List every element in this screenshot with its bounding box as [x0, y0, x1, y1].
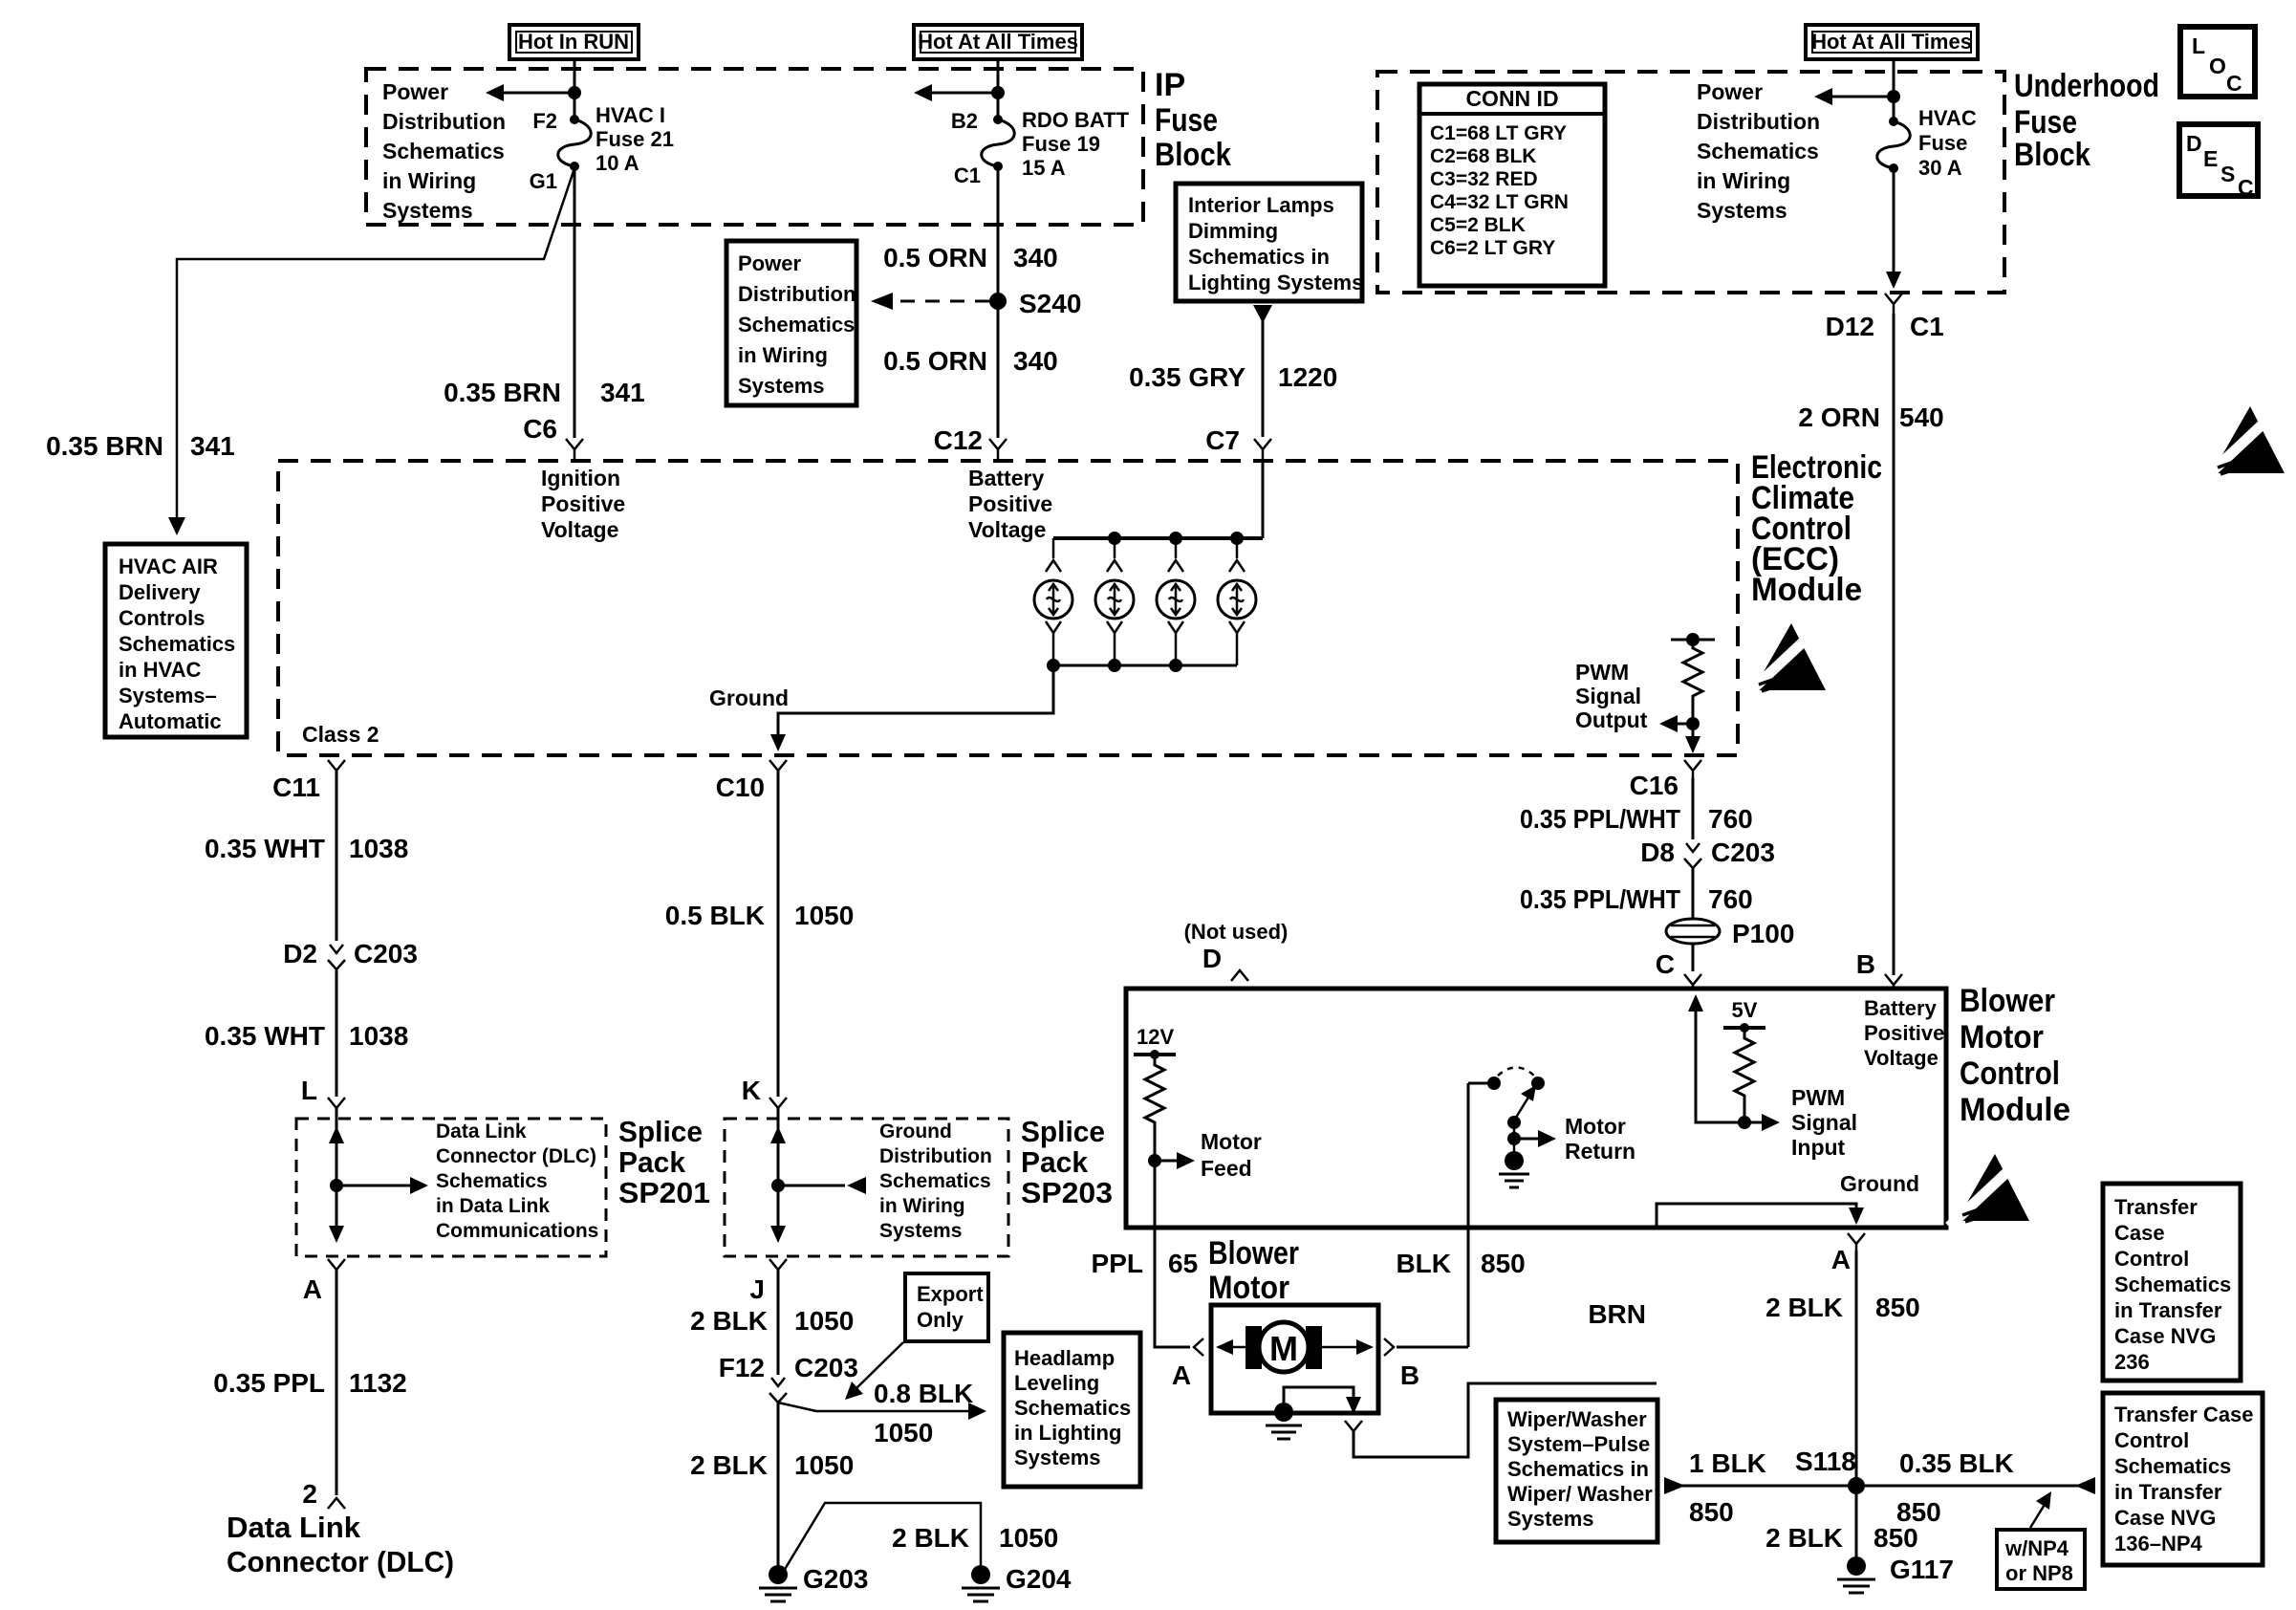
svg-text:Motor: Motor: [1565, 1114, 1626, 1139]
svg-text:Case NVG: Case NVG: [2114, 1506, 2216, 1530]
svg-text:Hot In RUN: Hot In RUN: [518, 30, 629, 54]
note: Data Link Connector schematics: [436, 1120, 598, 1242]
arrow down SP203: [770, 1226, 786, 1243]
wire through SP201: [336, 1108, 338, 1239]
in-line connector F12 C203: [719, 1353, 858, 1403]
svg-text:Power: Power: [1697, 79, 1763, 104]
node dots on bottom bus: [1047, 659, 1060, 672]
svg-text:2 BLK: 2 BLK: [1765, 1293, 1843, 1322]
wire labels 1 BLK / S118 / 0.35 BLK: [1689, 1447, 2014, 1478]
driver lamp symbol 2: [1095, 538, 1134, 665]
svg-text:Systems: Systems: [738, 374, 825, 398]
wire label 2 ORN 540: [1798, 402, 1943, 432]
svg-text:C: C: [2238, 175, 2254, 200]
svg-text:F2: F2: [532, 109, 557, 133]
svg-text:Voltage: Voltage: [968, 517, 1046, 542]
motor return loop inside case: [1284, 1387, 1354, 1403]
wire label BLK 850: [1396, 1249, 1525, 1278]
label box Hot At All Times (underhood): [1806, 25, 1978, 59]
splice pack SP201 dashed box: [296, 1119, 606, 1256]
arrow at C16 exit: [1685, 724, 1700, 753]
wire A to DLC: [336, 1270, 338, 1495]
svg-text:0.35 GRY: 0.35 GRY: [1129, 362, 1245, 392]
svg-text:in Transfer: in Transfer: [2114, 1480, 2222, 1504]
splice node SP203: [771, 1179, 785, 1192]
svg-text:D: D: [1202, 944, 1222, 973]
svg-text:Positive: Positive: [968, 491, 1052, 516]
value label HVAC Fuse 30 A: [1918, 106, 1977, 180]
IP fuse block dashed box: [366, 69, 1143, 225]
svg-text:C2=68 BLK: C2=68 BLK: [1430, 145, 1536, 167]
svg-text:Voltage: Voltage: [541, 517, 618, 542]
svg-text:Ground: Ground: [1840, 1171, 1919, 1196]
svg-text:in Lighting: in Lighting: [1014, 1421, 1121, 1445]
motor case box: [1211, 1305, 1378, 1413]
arrow from Interior Lamps box: [1253, 305, 1272, 323]
svg-text:Schematics: Schematics: [436, 1170, 548, 1192]
wire module A to S118: [1855, 1251, 1858, 1478]
svg-text:G117: G117: [1890, 1555, 1954, 1584]
svg-text:Signal: Signal: [1791, 1110, 1857, 1135]
svg-text:5V: 5V: [1732, 998, 1758, 1022]
svg-text:J: J: [749, 1274, 765, 1304]
note: Power Distribution Schematics (underhood): [1697, 79, 1820, 223]
svg-text:Control: Control: [1960, 1055, 2060, 1092]
svg-text:BLK: BLK: [1396, 1249, 1451, 1278]
ground G203: [759, 1564, 869, 1601]
wire P100 to module pin C: [1692, 944, 1695, 971]
svg-text:Input: Input: [1791, 1135, 1846, 1160]
svg-text:Feed: Feed: [1201, 1156, 1252, 1181]
connector C11: [328, 760, 345, 771]
label IP Fuse Block: [1155, 67, 1231, 173]
svg-text:Transfer: Transfer: [2114, 1195, 2198, 1219]
svg-text:in Wiring: in Wiring: [1697, 168, 1790, 193]
node dots on top bus: [1108, 532, 1121, 545]
svg-text:Schematics: Schematics: [1014, 1396, 1131, 1420]
wire motor B to switch: [1397, 1346, 1468, 1349]
svg-text:System–Pulse: System–Pulse: [1507, 1432, 1650, 1456]
svg-text:2 ORN: 2 ORN: [1798, 402, 1880, 432]
svg-text:2 BLK: 2 BLK: [690, 1450, 768, 1480]
wire arrow to power distribution (underhood): [1814, 88, 1894, 105]
splice S118 node: [1848, 1477, 1865, 1494]
pin label Motor Return: [1565, 1114, 1635, 1164]
svg-text:Battery: Battery: [968, 466, 1044, 490]
svg-text:A: A: [1172, 1360, 1191, 1390]
svg-text:Schematics in: Schematics in: [1507, 1457, 1649, 1481]
svg-text:C12: C12: [934, 425, 983, 455]
ground G204: [962, 1564, 1072, 1601]
svg-text:0.35 WHT: 0.35 WHT: [205, 1021, 325, 1051]
svg-text:1038: 1038: [349, 834, 408, 863]
svg-text:850: 850: [1875, 1293, 1920, 1322]
svg-text:Ground: Ground: [879, 1120, 952, 1142]
svg-text:Distribution: Distribution: [1697, 109, 1820, 134]
svg-text:Interior Lamps: Interior Lamps: [1188, 193, 1334, 217]
svg-text:30 A: 30 A: [1918, 156, 1962, 180]
wire through SP203: [777, 1108, 780, 1239]
svg-text:Systems: Systems: [1697, 198, 1787, 223]
svg-text:Output: Output: [1575, 707, 1648, 732]
wire arrow to power distribution: [914, 84, 998, 101]
arrow motor return: [1514, 1130, 1556, 1147]
svg-text:C7: C7: [1205, 425, 1240, 455]
svg-text:PWM: PWM: [1791, 1085, 1845, 1110]
driver lamp symbol 4: [1218, 538, 1256, 665]
svg-text:Fuse: Fuse: [1918, 131, 1967, 155]
svg-text:C: C: [2226, 71, 2242, 96]
svg-text:0.8 BLK: 0.8 BLK: [874, 1379, 973, 1408]
splice pack SP203 dashed box: [725, 1119, 1008, 1256]
svg-text:Schematics: Schematics: [2114, 1273, 2231, 1296]
svg-text:C6: C6: [523, 414, 557, 444]
fuse F19 RDO BATT 15A: [982, 115, 1015, 171]
wire fuse19 to C12: [997, 166, 1000, 438]
svg-text:G204: G204: [1006, 1564, 1072, 1594]
svg-text:1050: 1050: [794, 1306, 854, 1336]
svg-text:Voltage: Voltage: [1864, 1046, 1939, 1070]
svg-text:L: L: [301, 1076, 317, 1105]
wire C16 to C203: [1692, 778, 1695, 839]
svg-text:S240: S240: [1019, 289, 1081, 318]
svg-text:L: L: [2192, 33, 2205, 58]
svg-text:Schematics: Schematics: [879, 1170, 991, 1192]
svg-text:SP201: SP201: [618, 1176, 710, 1209]
svg-text:in Wiring: in Wiring: [738, 343, 828, 367]
svg-text:2 BLK: 2 BLK: [892, 1523, 969, 1553]
branch wire export headlamp: [778, 1403, 971, 1411]
svg-text:Ground: Ground: [709, 685, 789, 710]
wire branch diagonal to HVAC AIR schematic: [177, 168, 574, 522]
svg-text:or NP8: or NP8: [2005, 1561, 2073, 1585]
svg-text:Battery: Battery: [1864, 996, 1938, 1020]
note box Export Only: [905, 1273, 988, 1341]
module box: [1126, 989, 1946, 1228]
value label HVAC I Fuse 21 10 A: [596, 103, 674, 175]
svg-text:1050: 1050: [999, 1523, 1058, 1553]
label Blower Motor: [1208, 1235, 1299, 1306]
svg-text:in Data Link: in Data Link: [436, 1195, 550, 1217]
wire label 0.35 PPL 1132: [213, 1368, 406, 1398]
node junction underhood feed: [1887, 90, 1900, 103]
pin D (not used): [1184, 920, 1289, 981]
wire labels 850 / 850: [1689, 1497, 1941, 1527]
svg-text:S118: S118: [1795, 1447, 1856, 1476]
grommet P100: [1666, 919, 1794, 948]
svg-text:Automatic: Automatic: [119, 709, 222, 733]
wire label 0.35 BRN 341 (left branch): [46, 431, 235, 461]
svg-text:in Wiring: in Wiring: [382, 168, 476, 193]
dimming bus top: [1053, 536, 1263, 540]
svg-text:M: M: [1269, 1329, 1298, 1368]
svg-text:Module: Module: [1751, 572, 1862, 608]
motor M: [1245, 1322, 1322, 1372]
svg-text:Systems: Systems: [879, 1220, 962, 1242]
wire label 2 BLK 850 (G117): [1765, 1523, 1918, 1553]
svg-text:Dimming: Dimming: [1188, 219, 1278, 243]
svg-text:0.35 BLK: 0.35 BLK: [1899, 1448, 2014, 1478]
svg-text:S: S: [2220, 162, 2235, 186]
wire label 0.35 PPL/WHT 760 (lower): [1520, 884, 1753, 914]
svg-text:1050: 1050: [794, 1450, 854, 1480]
svg-text:Lighting Systems: Lighting Systems: [1188, 271, 1363, 294]
svg-text:Blower: Blower: [1208, 1235, 1299, 1272]
wire fuse to D12 with arrow: [1886, 168, 1901, 289]
connector A (DLC): [328, 1259, 345, 1270]
note box Transfer Case NVG 136-NP4: [2103, 1393, 2263, 1565]
connector B (motor): [1384, 1338, 1394, 1356]
fuse HVAC 30A: [1877, 117, 1911, 173]
svg-text:Module: Module: [1960, 1092, 2070, 1128]
ECC module dashed box: [278, 461, 1738, 755]
svg-text:C16: C16: [1630, 771, 1679, 800]
arrow down SP201: [329, 1226, 344, 1243]
svg-text:540: 540: [1899, 402, 1944, 432]
svg-text:B: B: [1400, 1360, 1419, 1390]
arrow to ground distribution: [778, 1177, 866, 1194]
svg-text:Data Link: Data Link: [436, 1120, 527, 1142]
svg-text:Systems: Systems: [382, 198, 473, 223]
label Blower Motor Control Module: [1960, 983, 2070, 1128]
svg-text:G203: G203: [803, 1564, 869, 1594]
wire switch to motor pin B: [1467, 1083, 1470, 1347]
arrow to DLC schematics: [336, 1177, 428, 1194]
svg-text:850: 850: [1481, 1249, 1526, 1278]
wire label PPL 65: [1092, 1249, 1199, 1278]
connector C10: [769, 760, 787, 771]
wire label 2 BLK 1050 (upper): [690, 1306, 854, 1336]
svg-text:2 BLK: 2 BLK: [1765, 1523, 1843, 1553]
chassis ground (motor): [1266, 1425, 1302, 1439]
dimming bus bottom: [1053, 664, 1237, 667]
svg-text:Motor: Motor: [1960, 1019, 2044, 1055]
svg-text:Connector (DLC): Connector (DLC): [227, 1545, 454, 1578]
dashed arrow from S240 to power distribution: [871, 293, 989, 310]
connector L: [328, 1098, 345, 1108]
svg-text:Fuse: Fuse: [2014, 104, 2077, 141]
svg-text:C1: C1: [1910, 312, 1944, 341]
svg-text:Block: Block: [1155, 137, 1231, 173]
svg-text:Hot At All Times: Hot At All Times: [918, 30, 1078, 54]
svg-text:Data Link: Data Link: [227, 1511, 361, 1544]
wire label 0.35 WHT 1038 (lower): [205, 1021, 408, 1051]
connector motor return: [1345, 1421, 1362, 1431]
svg-text:BRN: BRN: [1588, 1299, 1646, 1329]
svg-text:Fuse: Fuse: [1155, 102, 1218, 139]
arrow to headlamp schematics: [968, 1403, 986, 1420]
connector C16: [1684, 760, 1701, 778]
svg-text:Control: Control: [2114, 1247, 2189, 1271]
svg-text:0.5 ORN: 0.5 ORN: [883, 243, 987, 272]
wire label 2 BLK 1050 (lower): [690, 1450, 854, 1480]
svg-text:(Not used): (Not used): [1184, 920, 1289, 944]
svg-text:Controls: Controls: [119, 606, 205, 630]
svg-text:Schematics: Schematics: [382, 139, 505, 163]
svg-text:C: C: [1656, 949, 1675, 979]
splice node SP201: [330, 1179, 343, 1192]
pin label PWM Signal Input: [1791, 1085, 1857, 1160]
svg-text:Splice: Splice: [1021, 1115, 1105, 1148]
legend box LOC: [2180, 27, 2255, 97]
svg-text:Systems: Systems: [1507, 1507, 1594, 1531]
arrow motor feed: [1155, 1152, 1195, 1169]
resistor motor feed: [1145, 1055, 1164, 1161]
wire 2 ORN 540 to module pin B: [1893, 314, 1895, 975]
svg-text:1050: 1050: [874, 1418, 933, 1447]
svg-text:Power: Power: [382, 79, 448, 104]
svg-text:D2: D2: [283, 939, 317, 968]
svg-text:Power: Power: [738, 251, 801, 275]
wire dimming feed to C7: [1262, 317, 1265, 437]
label Electronic Climate Control (ECC) Module: [1751, 449, 1882, 608]
label box Hot In RUN: [509, 25, 639, 59]
svg-text:0.35 PPL: 0.35 PPL: [213, 1368, 325, 1398]
internal ground of switch: [1499, 1151, 1529, 1187]
svg-text:F12: F12: [719, 1353, 765, 1382]
svg-text:Distribution: Distribution: [879, 1145, 992, 1167]
svg-text:O: O: [2209, 54, 2226, 78]
svg-text:0.5 ORN: 0.5 ORN: [883, 346, 987, 376]
svg-text:C203: C203: [354, 939, 418, 968]
svg-text:C5=2 BLK: C5=2 BLK: [1430, 214, 1526, 236]
svg-text:Control: Control: [2114, 1428, 2189, 1452]
note box Interior Lamps Dimming: [1176, 184, 1363, 301]
svg-text:760: 760: [1708, 804, 1753, 834]
connector K: [769, 1098, 787, 1108]
note box HVAC AIR Delivery Controls: [105, 544, 247, 737]
svg-text:1 BLK: 1 BLK: [1689, 1448, 1766, 1478]
svg-text:Schematics in: Schematics in: [1188, 245, 1330, 269]
connector D12/C1: [1885, 294, 1902, 314]
connector A (module): [1848, 1233, 1865, 1251]
svg-text:P100: P100: [1732, 919, 1794, 948]
svg-text:0.5 BLK: 0.5 BLK: [665, 901, 765, 930]
note box w/NP4 or NP8: [1997, 1530, 2085, 1589]
wire label 2 BLK 1050 (G204): [892, 1523, 1058, 1553]
svg-text:Connector (DLC): Connector (DLC): [436, 1145, 596, 1167]
svg-text:w/NP4: w/NP4: [2004, 1536, 2069, 1560]
svg-text:C6=2 LT GRY: C6=2 LT GRY: [1430, 237, 1555, 259]
svg-text:Wiper/Washer: Wiper/Washer: [1507, 1407, 1647, 1431]
svg-text:1132: 1132: [349, 1368, 407, 1398]
arrow up SP203: [770, 1126, 786, 1143]
svg-text:PWM: PWM: [1575, 660, 1629, 685]
wire label 0.35 PPL/WHT 760 (upper): [1520, 804, 1753, 834]
switch motor return: [1468, 1068, 1545, 1153]
svg-text:IP: IP: [1155, 67, 1185, 103]
note box Transfer Case NVG 236: [2103, 1184, 2241, 1381]
svg-text:RDO BATT: RDO BATT: [1022, 108, 1130, 132]
svg-text:C3=32 RED: C3=32 RED: [1430, 168, 1538, 190]
svg-text:Schematics: Schematics: [119, 632, 235, 656]
svg-text:K: K: [742, 1076, 761, 1105]
svg-text:850: 850: [1689, 1497, 1734, 1527]
driver lamp symbol 1: [1034, 538, 1072, 665]
svg-text:HVAC I: HVAC I: [596, 103, 665, 127]
pin label Battery Positive Voltage: [968, 466, 1052, 542]
svg-text:Headlamp: Headlamp: [1014, 1346, 1115, 1370]
svg-text:C1=68 LT GRY: C1=68 LT GRY: [1430, 122, 1567, 144]
wire label 0.5 ORN 340 (lower): [883, 346, 1058, 376]
svg-text:1038: 1038: [349, 1021, 408, 1051]
5V supply: [1723, 998, 1765, 1033]
wire label 0.35 BRN 341: [444, 378, 645, 407]
ground G117: [1837, 1555, 1954, 1593]
svg-text:341: 341: [190, 431, 235, 461]
wire label 0.35 GRY 1220: [1129, 362, 1337, 392]
svg-text:Signal: Signal: [1575, 684, 1641, 708]
svg-text:Wiper/ Washer: Wiper/ Washer: [1507, 1482, 1653, 1506]
svg-text:A: A: [1831, 1245, 1851, 1274]
svg-text:in Transfer: in Transfer: [2114, 1298, 2222, 1322]
svg-text:136–NP4: 136–NP4: [2114, 1532, 2203, 1556]
svg-text:Schematics: Schematics: [2114, 1454, 2231, 1478]
wire fuse21 to C6: [574, 168, 576, 438]
svg-text:760: 760: [1708, 884, 1753, 914]
svg-text:Splice: Splice: [618, 1115, 703, 1148]
svg-text:B: B: [1856, 949, 1875, 979]
arrow PWM signal input: [1744, 1114, 1780, 1131]
svg-text:0.35 BRN: 0.35 BRN: [444, 378, 561, 407]
svg-text:Return: Return: [1565, 1139, 1635, 1164]
svg-text:Motor: Motor: [1201, 1129, 1262, 1154]
connector A (motor): [1194, 1338, 1203, 1356]
svg-text:PPL: PPL: [1092, 1249, 1143, 1278]
svg-text:Systems: Systems: [1014, 1446, 1101, 1469]
splice S240: [989, 289, 1081, 318]
label Underhood Fuse Block: [2014, 68, 2159, 173]
driver lamp symbol 3: [1157, 538, 1195, 665]
label Data Link Connector (DLC): [227, 1511, 454, 1578]
svg-text:Class 2: Class 2: [302, 722, 379, 747]
note: Power Distribution Schematics in Wiring Systems (IP): [382, 79, 506, 223]
svg-text:0.35 WHT: 0.35 WHT: [205, 834, 325, 863]
pin label PWM Signal Output: [1575, 660, 1648, 732]
svg-text:Leveling: Leveling: [1014, 1371, 1099, 1395]
wire from Hot In RUN to fuse 21: [574, 59, 576, 120]
arrow at C10 exit: [770, 734, 786, 751]
node motor feed: [1148, 1154, 1161, 1167]
svg-text:C1: C1: [954, 163, 981, 187]
ground wire inside ECC: [778, 665, 1053, 738]
svg-text:Hot At All Times: Hot At All Times: [1811, 30, 1972, 54]
wire label 0.5 BLK 1050: [665, 901, 855, 930]
ground wire inside module: [1657, 1204, 1856, 1228]
pin label Ignition Positive Voltage: [541, 466, 625, 542]
value label RDO BATT Fuse 19 15 A: [1022, 108, 1130, 180]
12V supply: [1134, 1025, 1176, 1059]
wire motor feed to pin A of motor: [1155, 1161, 1190, 1347]
label Splice Pack SP203: [1021, 1115, 1113, 1209]
ESD symbol (module): [1949, 1154, 2029, 1227]
label Splice Pack SP201: [618, 1115, 710, 1209]
wire S118 to G117: [1855, 1486, 1858, 1558]
svg-text:236: 236: [2114, 1350, 2150, 1374]
svg-text:Transfer Case: Transfer Case: [2114, 1403, 2254, 1426]
svg-text:0.35 PPL/WHT: 0.35 PPL/WHT: [1520, 884, 1680, 914]
label box Hot At All Times (IP): [914, 25, 1082, 59]
svg-text:Export: Export: [917, 1282, 984, 1306]
svg-text:10 A: 10 A: [596, 151, 639, 175]
connector C (module): [1684, 974, 1701, 990]
svg-text:Block: Block: [2014, 137, 2090, 173]
svg-text:Distribution: Distribution: [382, 109, 506, 134]
ESD symbol (top right): [2204, 406, 2285, 479]
arrow ground exit: [1849, 1207, 1864, 1225]
svg-text:Pack: Pack: [618, 1145, 686, 1179]
svg-text:Underhood: Underhood: [2014, 68, 2159, 104]
